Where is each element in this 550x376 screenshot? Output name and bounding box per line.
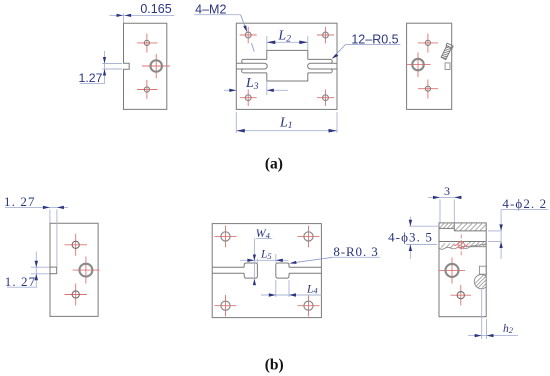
svg-text:1.27: 1.27 xyxy=(79,71,103,85)
left tongue xyxy=(236,63,267,69)
dimension L3 xyxy=(224,76,288,95)
set screw square hole A-right xyxy=(445,63,450,70)
svg-text:L2: L2 xyxy=(277,29,291,45)
dimension L2 xyxy=(267,29,308,50)
lower-right slot xyxy=(308,69,332,73)
hole A-center bottom-left xyxy=(240,89,257,106)
dimension 1.27 top (b-left) xyxy=(4,194,68,267)
hole B-left top xyxy=(65,234,88,256)
hole A-right top xyxy=(418,34,438,53)
hole A-left bottom xyxy=(137,80,158,99)
upper-left slot xyxy=(242,59,267,63)
hole B-left bottom xyxy=(65,284,88,306)
svg-text:L1: L1 xyxy=(279,115,293,131)
hole A-left center big xyxy=(142,54,170,78)
hole A-right bottom xyxy=(418,80,438,99)
dimension 1.27 (a-left) xyxy=(79,51,122,85)
dimension 4-phi2.2 xyxy=(488,196,549,259)
B-right hatched top band xyxy=(454,223,486,231)
label 12-R0.5 with leader xyxy=(332,32,401,59)
hole B-left center big xyxy=(73,257,100,284)
part B-center outline xyxy=(212,224,321,318)
center block top xyxy=(267,50,308,59)
right block xyxy=(276,263,289,278)
part B-right outline xyxy=(439,223,486,317)
part A-right outline xyxy=(407,23,452,109)
hole A-center bottom-right xyxy=(317,89,334,106)
svg-text:L3: L3 xyxy=(245,76,259,92)
svg-text:1. 27: 1. 27 xyxy=(4,194,36,209)
lower-left slot xyxy=(242,69,267,73)
set screw section A-right xyxy=(440,43,453,60)
svg-text:0.165: 0.165 xyxy=(140,2,171,16)
dimension L5 xyxy=(240,249,289,264)
svg-text:(a): (a) xyxy=(265,156,283,173)
dimension 1.27 left (b-left) xyxy=(5,251,50,289)
left tongue xyxy=(212,266,244,268)
B-right top tab line xyxy=(439,227,454,229)
hole A-left top xyxy=(137,34,158,53)
hole B-center top-right xyxy=(298,226,320,248)
tab B-left xyxy=(50,267,57,274)
center block bottom xyxy=(267,73,308,81)
dimension 3 (b-right top) xyxy=(428,184,462,223)
hole A-center top-right xyxy=(317,27,334,44)
svg-text:8-R0. 3: 8-R0. 3 xyxy=(333,244,378,259)
B-right second band with hatch xyxy=(439,235,487,257)
dimension L4 xyxy=(261,280,322,297)
svg-text:(b): (b) xyxy=(265,357,284,374)
A-center flexure cuts xyxy=(236,50,337,81)
svg-text:h2: h2 xyxy=(503,323,514,335)
dimension h2 xyxy=(468,288,518,339)
upper-right slot xyxy=(308,59,332,63)
svg-text:L5: L5 xyxy=(260,249,272,261)
part A-left outline xyxy=(124,23,167,109)
hole B-center top-left xyxy=(215,226,237,248)
dimension 4-phi3.5 xyxy=(388,217,439,259)
svg-text:L4: L4 xyxy=(306,283,318,295)
hole B-center bottom-right xyxy=(298,295,320,317)
label 4-M2 with leader xyxy=(194,3,254,52)
part B-left outline xyxy=(50,223,98,316)
svg-text:4-ϕ2. 2: 4-ϕ2. 2 xyxy=(502,196,547,211)
left block xyxy=(244,263,257,278)
dimension W4 xyxy=(253,226,272,285)
hole A-center top-left xyxy=(240,27,257,44)
hole B-right center big xyxy=(439,258,465,284)
dimension 0.165 xyxy=(110,2,175,23)
dimension L1 xyxy=(236,112,337,133)
label 8-R0.3 with leader xyxy=(289,244,380,264)
hole B-center bottom-left xyxy=(215,295,237,317)
side screw B-right xyxy=(474,266,488,289)
svg-text:4-ϕ3. 5: 4-ϕ3. 5 xyxy=(388,230,433,245)
hole B-right small xyxy=(451,285,472,306)
right tongue xyxy=(289,266,321,268)
hole A-right center big xyxy=(406,53,431,78)
svg-text:3: 3 xyxy=(444,184,450,198)
right tongue xyxy=(308,63,337,69)
red hole circle in band xyxy=(458,242,465,249)
part A-center outline xyxy=(236,23,337,109)
wavy break line xyxy=(439,245,487,250)
B-center tongues and blocks xyxy=(212,263,321,278)
